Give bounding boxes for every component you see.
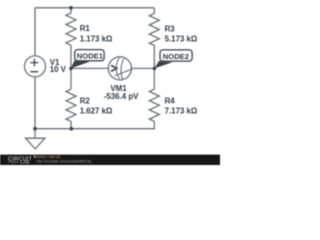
watermark author icon: [34, 155, 36, 158]
node NODE2: [160, 50, 192, 61]
ground: [26, 129, 45, 149]
junction R1 top rail: [69, 6, 73, 10]
voltage source V1: [25, 56, 67, 77]
svg-text:1.627 kΩ: 1.627 kΩ: [80, 107, 113, 116]
wire NODE1 to voltmeter: [71, 67, 108, 69]
junction NODE1: [69, 67, 73, 71]
wire R1 top lead: [70, 8, 72, 13]
svg-text:1.173 kΩ: 1.173 kΩ: [80, 34, 113, 43]
resistor R2: [66, 89, 112, 121]
wire top rail: [35, 7, 154, 9]
svg-text:http://circuitlab.com/c/a2q6b6: http://circuitlab.com/c/a2q6b6f8923g: [37, 160, 92, 164]
voltmeter VM1: [104, 57, 139, 101]
wire R3 top corner: [153, 8, 155, 14]
junction ground rail: [33, 127, 37, 131]
watermark logo zigzag: [8, 161, 19, 163]
node NODE1: [75, 50, 104, 61]
svg-text:5.173 kΩ: 5.173 kΩ: [165, 34, 198, 43]
svg-text:-536.4 pV: -536.4 pV: [104, 92, 139, 101]
wire R4 top lead: [153, 68, 155, 89]
svg-text:R1: R1: [80, 24, 91, 33]
watermark bar: [0, 155, 220, 165]
svg-text:R4: R4: [165, 97, 176, 106]
resistor R3: [149, 13, 197, 45]
svg-text:NODE2: NODE2: [163, 52, 189, 61]
wire R3 bottom to NODE2 junction: [153, 45, 155, 68]
wire bottom rail: [35, 121, 154, 128]
junction R2 bottom rail: [70, 127, 74, 131]
svg-text:NODE1: NODE1: [77, 52, 104, 61]
node NODE1 callout tail: [71, 61, 90, 69]
wire R2 bottom lead: [70, 121, 72, 129]
svg-text:10 V: 10 V: [50, 65, 67, 74]
resistor R4: [149, 89, 197, 121]
wire R2 top lead: [70, 68, 72, 89]
resistor R1: [66, 13, 112, 45]
svg-text:R3: R3: [165, 24, 176, 33]
svg-text:7.173 kΩ: 7.173 kΩ: [165, 107, 198, 116]
wire R1 bottom to NODE1 junction: [70, 45, 72, 68]
node NODE2 callout tail: [154, 61, 172, 68]
junction NODE2: [153, 67, 157, 71]
svg-text:R2: R2: [80, 97, 91, 106]
wire V1 bottom to ground junction: [34, 77, 36, 129]
wire left vertical (rail to V1 top): [34, 8, 36, 56]
svg-text:LAB: LAB: [21, 160, 30, 165]
wire voltmeter to NODE2: [132, 67, 155, 69]
